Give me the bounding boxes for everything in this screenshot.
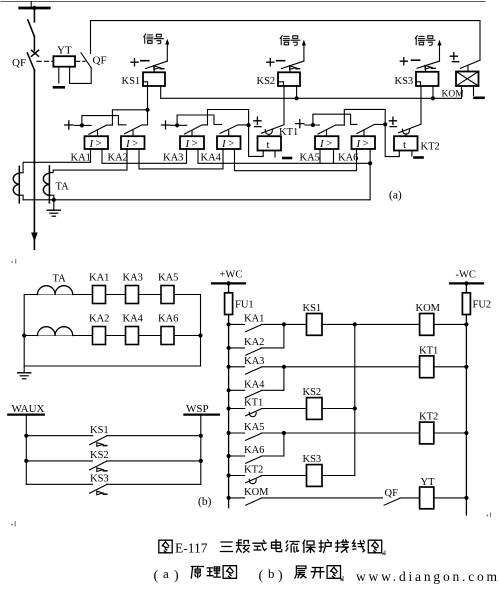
svg-text:KOM: KOM [244, 487, 269, 498]
wire phase C row [24, 335, 200, 337]
svg-text:WSP: WSP [186, 403, 209, 415]
node KS1 output junction [353, 322, 357, 326]
relay KA2 coil box b [93, 327, 106, 345]
KA3 top lead [191, 130, 193, 136]
wire KS2 right lead [296, 86, 298, 98]
node -WC KT1 [464, 365, 468, 369]
minus tick under YT [54, 86, 64, 89]
KT2 contact plus-minus label [389, 117, 396, 126]
svg-text:KS3: KS3 [303, 454, 322, 465]
wire WSP vertical [200, 415, 202, 485]
node group1 plus [80, 123, 84, 127]
node KS3 common [431, 96, 435, 100]
wire group1 staircase to KA2 fixed [82, 116, 126, 126]
relay KS1 coil box br [307, 314, 323, 336]
KA2 contact row [229, 348, 262, 355]
KOM contact plus label [450, 53, 458, 62]
KS1 reset flag [154, 66, 164, 73]
node left neutral [22, 333, 26, 337]
caption line 2: sublabels [154, 566, 344, 584]
node KS2 common [295, 96, 299, 100]
svg-text:>: > [363, 138, 369, 150]
node CT2 ground junction [52, 198, 56, 202]
node right common [198, 333, 202, 337]
node group2 output [247, 123, 251, 127]
KS3 reset flag [425, 65, 435, 71]
wire KA5 blade to node [344, 109, 385, 125]
wire +WC bus vertical [228, 283, 230, 507]
svg-text:KA1: KA1 [244, 314, 264, 325]
svg-text:KA4: KA4 [123, 314, 144, 325]
caption line 1: title [159, 540, 385, 556]
svg-text:>: > [132, 138, 138, 150]
YT left lead to minus [58, 67, 60, 83]
KT2 delay cup [402, 129, 409, 134]
relay KA6 coil box b [161, 327, 174, 345]
svg-text:KT1: KT1 [419, 346, 438, 357]
node KS2 row right [199, 459, 203, 463]
node KA4 riser junction [282, 365, 286, 369]
KS1 flag b [97, 443, 107, 447]
transformer TA primary bar 2 [48, 166, 50, 203]
svg-text:(b): (b) [198, 496, 212, 508]
wire group3 staircase to KA6 fixed [313, 114, 357, 125]
wire KT2 contact to KS3 [261, 475, 306, 477]
svg-text:KS3: KS3 [90, 474, 109, 485]
contact KA3 blade [185, 125, 208, 134]
relay KT2 time coil box [394, 136, 418, 151]
node KS2 row left [24, 459, 28, 463]
wire group2 staircase to KA4 fixed [177, 115, 221, 125]
svg-text:KS2: KS2 [257, 76, 276, 87]
wire right common vertical [200, 295, 202, 367]
KS1 row wire [26, 435, 201, 437]
node KA6 riser junction [282, 431, 286, 435]
wire current return down [369, 163, 371, 200]
KS3 contact plus label [400, 58, 407, 65]
svg-text:t: t [403, 139, 406, 151]
KT2 contact row [229, 476, 262, 483]
KA1 top lead [97, 130, 99, 136]
wire KOM right lead [473, 86, 475, 96]
KS1 contact blade [146, 61, 168, 68]
svg-text:KT1: KT1 [244, 398, 263, 409]
svg-text:KA3: KA3 [123, 273, 143, 284]
fuse FU1 [225, 293, 233, 315]
node bus KA6 [227, 454, 231, 458]
wire KS2 left lead down to KT1 contact [283, 86, 285, 125]
svg-text:E-117: E-117 [175, 541, 208, 556]
node +WC terminal [227, 281, 231, 285]
group1 plus label [65, 121, 73, 129]
KA6 top lead [363, 130, 365, 136]
svg-text:KA5: KA5 [158, 273, 178, 284]
KT1 top lead [268, 134, 270, 136]
node KS1-KA junction [145, 108, 149, 112]
page top border line [1, 1, 485, 3]
feeder wire down [33, 70, 35, 249]
signal label 3 [415, 36, 435, 46]
KT2 right lead [411, 151, 413, 157]
KT1 delay cup br [249, 412, 256, 416]
svg-text:KOM: KOM [416, 303, 441, 314]
svg-text:(: ( [259, 569, 264, 584]
KA1 contact row [229, 324, 262, 331]
minus tick KT2 [415, 156, 423, 159]
wire KS3 left lead down to KT2 contact [420, 86, 422, 124]
node group3 output [383, 122, 387, 126]
svg-text:KS2: KS2 [303, 387, 322, 398]
wire CT2 to KA2 left [49, 149, 127, 173]
node bus KT2 [227, 473, 231, 477]
contact KA5 blade [318, 125, 344, 134]
wire KA6 riser [283, 433, 285, 456]
wire KA5 left lead [319, 149, 321, 164]
svg-text:KA1: KA1 [89, 273, 109, 284]
wire KS2 to riser [322, 408, 355, 410]
svg-text:): ) [278, 569, 283, 584]
KS2 contact plus label [267, 59, 274, 66]
KS3 row wire [26, 483, 201, 485]
node bus KA2 [227, 346, 231, 350]
svg-text:KT2: KT2 [244, 465, 263, 476]
node KS1 row right [199, 434, 203, 438]
svg-text:KS2: KS2 [90, 450, 109, 461]
svg-text:TA: TA [53, 274, 67, 285]
wire KOM left lead [461, 86, 463, 98]
contact KOM blade [461, 60, 481, 68]
wire KA5 to KT2 coil [261, 432, 419, 434]
contact KA4 blade [220, 125, 249, 133]
wire CT1 to KA1 left [19, 149, 90, 173]
TA winding 1 arcs [13, 173, 19, 195]
svg-text:a: a [163, 566, 169, 581]
contact KT1 delayed blade [262, 125, 285, 134]
svg-text:KOM: KOM [442, 90, 465, 100]
+WC terminal bar [212, 282, 245, 284]
contact KS1 blade b [90, 436, 107, 445]
KA3 contact row [229, 367, 262, 374]
wire KA3 right to KA5 chain [198, 149, 370, 164]
svg-text:t: t [267, 139, 270, 151]
breaker QF cross and blade [27, 37, 38, 71]
KT2 delay cup br [249, 479, 256, 483]
svg-text:+WC: +WC [220, 270, 243, 281]
relay YT coil box br [420, 487, 434, 509]
svg-text:YT: YT [57, 45, 72, 57]
svg-text:KA3: KA3 [163, 153, 183, 164]
relay KA1 coil box b [93, 286, 106, 304]
KA4 top lead [228, 130, 230, 136]
relay KA3 coil box I> [180, 136, 204, 150]
node -WC KT2 [464, 431, 468, 435]
wire KS1 left lead down [147, 86, 149, 110]
wire phase A row [24, 294, 200, 296]
svg-text:www.diangon.com: www.diangon.com [356, 569, 499, 584]
wire KA3 to KT1 coil [261, 366, 419, 368]
wire KS output riser [354, 324, 356, 475]
wire CT2 bottom jog [49, 195, 53, 200]
node bus KOM [227, 496, 231, 500]
relay KA4 coil box b [126, 327, 139, 345]
KT1 contact row [229, 409, 262, 416]
TA winding b1 arcs [38, 286, 73, 295]
wire KA1 blade to node A [112, 110, 147, 125]
wire KS3 right lead [432, 86, 434, 98]
fuse FU2 [462, 293, 470, 315]
relay KT1 time coil box [258, 136, 282, 151]
node bus KA5 [227, 431, 231, 435]
svg-text:KT1: KT1 [279, 127, 298, 138]
node KS1 row left [24, 434, 28, 438]
KS2 row wire [26, 460, 201, 462]
svg-text:KA6: KA6 [158, 314, 178, 325]
svg-text:KT2: KT2 [421, 142, 440, 153]
stray mark left lower [11, 522, 15, 527]
KT2 top lead [405, 134, 407, 136]
group3 plus label [296, 120, 304, 128]
wire KA1 right to KA3 left [102, 149, 187, 164]
node -WC terminal [464, 281, 468, 285]
group2 plus label [162, 121, 170, 129]
svg-text:(a): (a) [389, 190, 402, 202]
KS2 reset flag [290, 66, 300, 73]
svg-text:KA5: KA5 [300, 153, 320, 164]
svg-text:>: > [326, 138, 332, 150]
svg-text:b: b [268, 566, 275, 581]
node -WC YT [464, 496, 468, 500]
relay KA6 coil box I> [352, 136, 376, 150]
svg-text:FU1: FU1 [235, 300, 254, 311]
KA5 contact row [229, 433, 262, 440]
svg-text:QF: QF [93, 55, 107, 67]
wire top long rail to KOM contact [91, 21, 481, 61]
wire group2 plus bus [171, 124, 187, 126]
svg-text:>: > [192, 138, 198, 150]
contact KA1 blade [89, 125, 113, 134]
wire QF aux upper lead [90, 21, 92, 54]
signal arrow 1 [165, 39, 169, 61]
signal arrow 2 [302, 40, 306, 61]
KS2 flag b [97, 468, 107, 472]
contact KS3 blade b [90, 485, 107, 494]
wire KA6 right lead [369, 149, 371, 164]
svg-text:KS3: KS3 [395, 76, 414, 87]
node current return [368, 161, 372, 165]
KA6 contact row [229, 456, 262, 463]
KA2 top lead [132, 130, 134, 136]
node -WC KOM [464, 322, 468, 326]
svg-text:KA2: KA2 [108, 153, 128, 164]
KS2 contact fixed stub [277, 60, 285, 62]
relay KS1 coil box [143, 72, 165, 86]
relay KA4 coil box I> [217, 136, 241, 150]
relay KA1 coil box I> [85, 136, 109, 150]
wire group1 plus bus [75, 124, 92, 126]
svg-text:KA2: KA2 [89, 314, 109, 325]
wire WAUX vertical [25, 415, 27, 485]
svg-text:YT: YT [421, 477, 436, 488]
node bus KA4 [227, 388, 231, 392]
svg-text:WAUX: WAUX [12, 403, 45, 415]
KS2 flag window notch [278, 82, 284, 86]
svg-text:KA6: KA6 [338, 153, 358, 164]
wire KA4 to riser [261, 389, 284, 391]
svg-text:KS1: KS1 [122, 76, 141, 87]
relay KS2 coil box br [307, 398, 323, 420]
wire KA2 to riser [261, 347, 284, 349]
KT1 delay cup [265, 130, 272, 135]
wire group2 node down to KT1 coil [249, 110, 264, 157]
node busbar-feeder junction [32, 6, 36, 10]
KA5 top lead [326, 130, 328, 136]
wire current return rail [23, 199, 370, 201]
svg-text:>: > [96, 138, 102, 150]
node bus KT1 [227, 406, 231, 410]
QF auxiliary contact blade [81, 53, 91, 68]
KOM top lead [467, 66, 469, 72]
svg-text:QF: QF [12, 57, 26, 69]
relay KA5 coil box b [161, 286, 174, 304]
svg-text:KA4: KA4 [201, 153, 222, 164]
KOM contact row [229, 498, 262, 505]
KS1 flag window notch [143, 82, 148, 86]
wire KA4 riser [283, 367, 285, 391]
wire KA5 right lead [333, 149, 335, 164]
wire KA1 to KS1 [261, 323, 306, 325]
wire KS3 to riser [322, 475, 355, 477]
svg-text:>: > [228, 138, 234, 150]
wire KA2 riser [283, 324, 285, 348]
svg-text:KA4: KA4 [244, 380, 265, 391]
WAUX terminal bar [8, 414, 44, 416]
feeder arrow [31, 233, 38, 242]
contact KS2 blade b [90, 461, 107, 470]
wire KS1 right lead to common [160, 86, 162, 98]
node bus KA3 [227, 365, 231, 369]
node KS2 output junction [353, 406, 357, 410]
stray mark left [11, 260, 16, 264]
relay KA5 coil box I> [315, 136, 339, 150]
svg-text:KT2: KT2 [419, 412, 438, 423]
relay KS3 coil box br [307, 465, 323, 487]
node group3 plus [311, 123, 315, 127]
contact KA2 blade [125, 125, 148, 134]
KS3 flag b [97, 491, 107, 495]
contact KT2 delayed blade [399, 124, 422, 133]
contact QF aux br [384, 498, 420, 505]
KS3 flag window notch [416, 82, 421, 86]
wire KT2 to -WC [434, 432, 467, 434]
svg-text:KA3: KA3 [244, 356, 264, 367]
wire KS1 to KOM coil [322, 323, 420, 325]
svg-text:-WC: -WC [456, 270, 476, 281]
-WC terminal bar [450, 282, 483, 284]
svg-text:KA6: KA6 [244, 445, 264, 456]
signal arrow 3 [437, 40, 441, 61]
wire group3 plus bus [305, 124, 320, 126]
signal label 2 [280, 36, 300, 46]
svg-text:KS1: KS1 [303, 303, 322, 314]
wire signal common rail [161, 97, 462, 99]
svg-text:): ) [174, 569, 179, 584]
contact KA6 blade [357, 124, 385, 133]
svg-text:KA2: KA2 [244, 337, 264, 348]
svg-text:KS1: KS1 [90, 425, 109, 436]
wire KT1 contact to KS2 [261, 408, 306, 410]
KS1 contact plus label [131, 59, 138, 66]
KS3 contact fixed stub [412, 59, 420, 61]
wire group3 node down to KT2 coil [385, 109, 399, 156]
minus tick KOM [475, 97, 484, 100]
TA winding 2 arcs [43, 173, 49, 195]
KS3 contact blade [417, 61, 440, 68]
relay KT1 coil box br [420, 356, 434, 378]
wire KOM contact to QF [261, 497, 382, 499]
wire KA6 to riser [261, 455, 284, 457]
signal label 1 (xin-hao glyphs) [144, 34, 164, 44]
node group2 plus [175, 123, 179, 127]
svg-text:FU2: FU2 [473, 300, 492, 311]
wire KT1 to -WC [434, 366, 467, 368]
wire KA2 right to KA4 left [139, 149, 223, 169]
wire YT to -WC [434, 497, 467, 499]
busbar [20, 2, 50, 9]
minus tick KT1 [283, 157, 291, 160]
svg-text:KA5: KA5 [244, 422, 264, 433]
wire KOM to -WC [434, 323, 467, 325]
svg-text:QF: QF [385, 488, 399, 499]
TA winding b2 arcs [38, 327, 73, 336]
disconnector QS on feeder [28, 8, 35, 37]
KS1 contact fixed stub [141, 60, 149, 62]
wire left neutral vertical [23, 295, 25, 367]
ground symbol section a [47, 200, 60, 216]
transformer TA primary bar 1 [18, 166, 20, 203]
KA4 contact row [229, 390, 262, 397]
relay KT2 coil box br [420, 422, 434, 444]
wire KA2 blade up [147, 110, 149, 125]
wire KA3 blade to node [208, 110, 249, 125]
relay KA3 coil box b [126, 286, 139, 304]
wire bottom return [24, 365, 200, 367]
svg-text:(: ( [154, 569, 159, 584]
wire CT1 bottom jog [19, 195, 23, 200]
relay KS3 coil box [416, 72, 439, 86]
relay KS2 coil box [278, 72, 300, 86]
node KA2 riser junction [282, 322, 286, 326]
relay KOM coil box br [420, 314, 434, 336]
svg-text:TA: TA [56, 182, 70, 193]
node bus KA1 [227, 322, 231, 326]
KS2 contact blade [281, 61, 304, 68]
KT1 right lead [274, 151, 276, 158]
WSP terminal bar [184, 414, 219, 416]
stray mark bottom right [486, 513, 490, 517]
KT1 contact plus-minus label [254, 117, 261, 126]
wire YT right lead to QF aux contact [70, 67, 92, 84]
ground symbol section b [18, 366, 31, 379]
wire KA4 right to KA6 left [235, 149, 357, 171]
wire -WC bus vertical [465, 283, 467, 515]
relay KOM box with cross [456, 72, 479, 87]
trip coil YT box [53, 56, 75, 66]
relay KA2 coil box I> [121, 136, 145, 150]
mechanical linkage dashed QF-YT [37, 60, 85, 62]
